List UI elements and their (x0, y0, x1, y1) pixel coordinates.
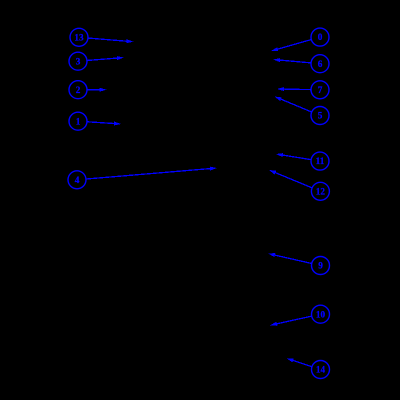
wire edge from node 0 (271, 37, 320, 51)
wire edge from node 13 (79, 37, 134, 43)
node 11 (311, 152, 329, 170)
node 5 (311, 107, 329, 125)
wire edge from node 6 (273, 58, 320, 64)
wire edge from node 12 (269, 170, 320, 191)
node 4 (68, 171, 86, 189)
svg-text:3: 3 (76, 56, 81, 66)
node 7 (311, 81, 329, 99)
svg-text:14: 14 (316, 365, 326, 375)
wire edge from node 14 (287, 358, 321, 369)
svg-text:9: 9 (318, 261, 323, 271)
node 12 (311, 182, 329, 200)
node 0 (311, 28, 329, 46)
wire edge from node 11 (276, 153, 320, 161)
node 14 (312, 361, 330, 379)
node 3 (69, 52, 87, 70)
wire edge from node 2 (78, 88, 107, 92)
node 2 (69, 81, 87, 99)
wire edge from node 4 (77, 167, 217, 180)
wire edge from node 10 (270, 314, 321, 326)
node 9 (312, 257, 330, 275)
wire edge from node 5 (275, 97, 321, 116)
wire edge from node 1 (78, 121, 121, 125)
svg-text:7: 7 (318, 85, 323, 95)
wire edge from node 9 (268, 253, 321, 265)
svg-text:10: 10 (316, 309, 326, 319)
svg-text:2: 2 (76, 85, 81, 95)
node 6 (311, 55, 329, 73)
node 13 (70, 28, 88, 46)
wire edge from node 3 (78, 56, 124, 61)
svg-text:6: 6 (318, 59, 323, 69)
svg-text:4: 4 (75, 175, 80, 185)
svg-text:13: 13 (74, 32, 84, 42)
node 1 (69, 112, 87, 130)
node 10 (312, 305, 330, 323)
wire edge from node 7 (277, 87, 320, 91)
svg-text:1: 1 (76, 116, 81, 126)
svg-text:0: 0 (318, 32, 323, 42)
svg-text:11: 11 (316, 156, 325, 166)
svg-text:5: 5 (318, 111, 323, 121)
svg-text:12: 12 (316, 186, 326, 196)
